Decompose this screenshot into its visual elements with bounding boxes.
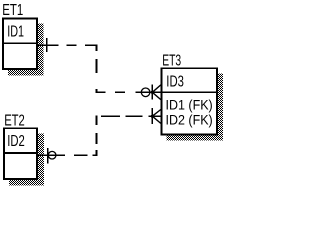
- entity ET2 key divider: [3, 152, 38, 154]
- entity ET1 shadow: [8, 24, 44, 76]
- svg-text:ID2: ID2: [7, 133, 25, 150]
- wire corner to ET3 upper: horizontal dashed segment y=92.3: [96, 91, 142, 93]
- entity ET1 box: [3, 18, 37, 69]
- wire corner to ET3 lower: horizontal dashed segment y=116.2: [101, 115, 152, 117]
- tick and crow's foot at ET3 upper end: [152, 84, 161, 99]
- cardinality tick at ET1 end: [46, 38, 48, 52]
- entity ET3 box: [162, 68, 218, 134]
- wire upper vertical dashed segment x=96.5: [96, 44, 98, 93]
- svg-text:ID3: ID3: [166, 74, 184, 91]
- svg-text:ID2 (FK): ID2 (FK): [166, 112, 213, 128]
- junction blob at ET3 upper crow's foot apex: [151, 91, 154, 94]
- svg-text:ET2: ET2: [4, 112, 25, 129]
- entity ET3 shadow: [167, 73, 223, 140]
- svg-text:ID1 (FK): ID1 (FK): [166, 96, 213, 112]
- svg-text:ID1: ID1: [7, 23, 24, 40]
- entity ET1 key divider: [2, 42, 37, 44]
- optionality circle at ET3 upper end: [141, 88, 150, 97]
- svg-text:ET3: ET3: [162, 52, 181, 69]
- entity ET2 box: [4, 128, 37, 179]
- tick and crow's foot at ET3 lower end: [152, 108, 161, 124]
- wire ET1 to corner: horizontal dashed segment y=45.1: [38, 44, 98, 46]
- wire through circle to tick at ET3 upper end: [141, 91, 152, 93]
- entity ET2 shadow: [9, 133, 44, 185]
- cardinality tick at ET2 end: [47, 148, 49, 164]
- wire lower vertical dashed segment x=96.5: [96, 115, 98, 156]
- entity ET3 key divider: [161, 91, 218, 93]
- optionality circle at ET2 end: [48, 151, 56, 159]
- junction blob at ET3 lower crow's foot apex: [151, 115, 154, 118]
- svg-text:ET1: ET1: [2, 2, 23, 19]
- wire ET2 to corner: horizontal dashed segment y=155.3: [38, 154, 97, 156]
